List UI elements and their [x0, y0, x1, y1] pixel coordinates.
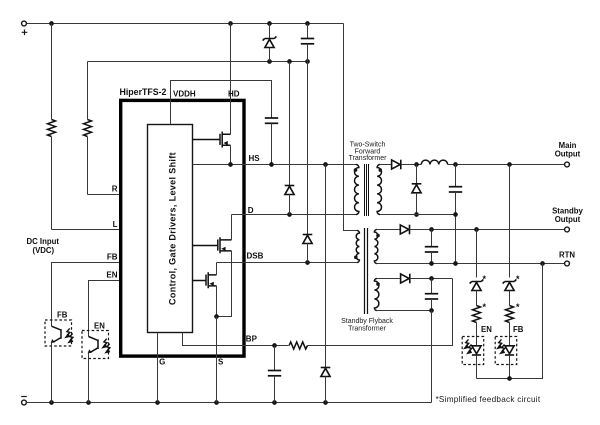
svg-text:Control, Gate Drivers, Level S: Control, Gate Drivers, Level Shift	[168, 152, 178, 305]
wire: bottom 0V rail	[27, 402, 432, 404]
wire: top +DC rail	[27, 23, 344, 25]
optocoupler U3 LED EN	[462, 337, 484, 365]
wire: main output line	[448, 164, 565, 166]
label DC Input (VDC)	[27, 237, 60, 255]
capacitor C2 (VDDH)	[265, 118, 278, 123]
wire: bias return to 0V rail	[431, 311, 433, 403]
node: bias cap dot	[429, 276, 434, 281]
wire: EN LED to return	[476, 355, 478, 379]
transformer T2 bias winding	[374, 279, 379, 311]
svg-text:Main: Main	[559, 141, 577, 150]
wire: FB pin lead	[52, 263, 122, 327]
wire: top rail right drop to flyback primary	[344, 24, 358, 231]
svg-text:*: *	[483, 302, 487, 312]
transformer T2 standby secondary winding	[374, 230, 377, 264]
wire: D line to forward primary bottom	[232, 214, 357, 216]
wire: S pin to 0V rail	[216, 317, 218, 403]
svg-text:FB: FB	[107, 253, 118, 262]
wire: HS line to forward primary	[193, 164, 357, 166]
svg-text:(VDC): (VDC)	[33, 246, 55, 255]
wire: FB LED to return	[509, 355, 511, 379]
svg-text:D: D	[248, 206, 254, 215]
wire: standby secondary top	[377, 229, 400, 231]
wire: FB opto emitter to 0V	[51, 342, 53, 402]
wire: FB resistor to LED	[509, 323, 511, 346]
svg-text:Standby: Standby	[552, 207, 583, 216]
diode D5 forward freewheel	[412, 165, 422, 215]
node: standby line dots	[429, 227, 479, 232]
wire: EN sense branch from standby output	[476, 230, 478, 278]
wire: EN pin lead	[89, 281, 122, 337]
resistor R1 (line sense, to L pin)	[48, 24, 56, 230]
node: RTN dots	[429, 261, 545, 266]
wire: DSB line to flyback primary bottom	[217, 262, 358, 264]
svg-text:Standby Flyback: Standby Flyback	[341, 318, 393, 325]
svg-text:BP: BP	[246, 335, 258, 344]
svg-text:FB: FB	[57, 311, 68, 320]
node: D clamp dot	[287, 212, 292, 217]
wire: EN zener to resistor	[476, 291, 478, 306]
wire: HD pin from +rail	[230, 24, 232, 135]
svg-text:HS: HS	[249, 154, 261, 163]
node: T2 standby secondary phase dot	[376, 234, 380, 238]
wire: bias winding top	[377, 278, 400, 280]
inductor L1 output choke	[421, 160, 447, 164]
wire: Q1 source to HS	[230, 145, 232, 164]
terminal: Standby Output	[565, 227, 570, 232]
DC input + terminal	[22, 21, 28, 35]
wire: VDDH trace to high-side supply cap	[171, 81, 272, 125]
node: HS dots	[228, 162, 328, 167]
wire: second rail (clamp net)	[88, 61, 308, 63]
svg-text:R: R	[112, 185, 118, 194]
zener VR1 (input clamp)	[263, 24, 277, 62]
wire: BP trace from inner block	[183, 333, 289, 346]
transformer T1 forward primary winding	[354, 165, 358, 215]
wire: Q3 source to S node	[216, 286, 218, 317]
node: bottom rail junction dots	[49, 400, 328, 405]
svg-text:Transformer: Transformer	[349, 155, 388, 162]
resistor R2 (reset, to R pin)	[84, 62, 92, 195]
svg-text:EN: EN	[94, 322, 105, 331]
node: freewheel top dot	[414, 162, 419, 167]
transformer T1 secondary winding	[377, 165, 381, 215]
node: C4 return dot	[453, 212, 458, 217]
wire: FB sense branch from main output	[509, 165, 511, 278]
svg-text:Output: Output	[555, 150, 581, 159]
diode D1 (D clamp to rail)	[285, 62, 295, 215]
transistor Q3 standby MOSFET	[193, 272, 217, 288]
wire: bias output to BP riser	[410, 278, 453, 280]
node: DSB clamp dot	[305, 260, 310, 265]
svg-text:RTN: RTN	[559, 251, 575, 260]
diode D4 forward output rectifier	[392, 160, 401, 170]
transformer T2 core	[365, 228, 368, 314]
svg-text:*Simplified feedback circuit: *Simplified feedback circuit	[436, 395, 541, 404]
wire: T1 secondary top to rectifier	[380, 164, 391, 166]
wire: EN resistor to LED	[476, 323, 478, 346]
svg-text:Output: Output	[555, 215, 581, 224]
svg-text:EN: EN	[106, 271, 117, 280]
diode D2 (DSB clamp to rail)	[303, 62, 313, 263]
wire: L pin lead	[52, 229, 122, 231]
node: feedback return dot	[507, 376, 512, 381]
svg-text:*: *	[483, 274, 487, 284]
svg-text:HD: HD	[228, 89, 240, 98]
svg-text:*: *	[516, 274, 520, 284]
capacitor C5 standby output	[425, 230, 438, 264]
wire: Q2 drain to D line	[231, 215, 233, 240]
wire: R pin lead	[88, 194, 122, 196]
node: T2 primary phase dot	[354, 255, 358, 259]
terminal: Main Output	[565, 162, 570, 167]
svg-text:*: *	[516, 302, 520, 312]
svg-text:HiperTFS-2: HiperTFS-2	[120, 87, 167, 97]
diode D7 bias rectifier	[401, 274, 410, 284]
svg-text:DSB: DSB	[247, 252, 264, 261]
wire: RTN line	[377, 263, 565, 265]
node: top rail junction dots	[49, 21, 310, 26]
node: BP cap dot	[272, 343, 277, 348]
svg-text:EN: EN	[481, 325, 492, 334]
wire: VDDH cap to HS	[271, 123, 273, 164]
label Two-Switch Forward Transformer	[349, 142, 388, 163]
svg-text:S: S	[218, 358, 224, 367]
wire: standby output line	[410, 229, 565, 231]
wire: feedback return to RTN	[477, 264, 543, 379]
svg-text:DC Input: DC Input	[27, 237, 60, 246]
transformer T2 flyback primary winding	[356, 231, 359, 263]
wire: EN opto emitter to 0V	[88, 352, 90, 402]
optocoupler U3 phototransistor EN	[82, 331, 110, 359]
svg-text:L: L	[113, 220, 118, 229]
node: T1 primary phase dot	[354, 168, 358, 172]
label Standby Output	[552, 207, 583, 225]
svg-text:VDDH: VDDH	[173, 89, 196, 98]
svg-text:Transformer: Transformer	[348, 326, 387, 333]
terminal: RTN	[565, 261, 570, 266]
diode D6 standby rectifier	[400, 225, 409, 235]
node: bias return dot	[429, 308, 434, 313]
transformer T1 core	[365, 164, 369, 216]
wire: bias winding bottom return	[377, 310, 432, 312]
DC input - terminal	[21, 397, 27, 405]
wire: FB zener to resistor	[509, 291, 511, 306]
svg-text:G: G	[159, 358, 165, 367]
capacitor C3 (BP)	[268, 346, 281, 403]
resistor R4 EN	[473, 306, 481, 323]
node: S node dot	[214, 314, 219, 319]
wire: G pin to 0V rail	[157, 333, 159, 403]
svg-text:FB: FB	[513, 325, 524, 334]
diode D3 (HS freewheel to 0V)	[321, 165, 331, 403]
optocoupler U2 phototransistor FB	[45, 320, 73, 346]
transistor Q2 forward low-side MOSFET	[193, 237, 232, 253]
transistor Q1 high-side MOSFET	[193, 132, 231, 148]
node: main line dots	[453, 162, 512, 167]
IC U1 HiperTFS-2 outline	[121, 100, 244, 356]
capacitor C6 bias	[425, 279, 438, 311]
wire: T1 secondary bottom return	[380, 214, 455, 216]
label Standby Flyback Transformer	[341, 318, 393, 333]
resistor R3 (BP series)	[289, 342, 307, 349]
wire: Q2 source down to S node	[217, 251, 232, 317]
node: T2 bias winding phase dot	[376, 282, 380, 286]
capacitor C4 main output	[449, 165, 462, 264]
node: T1 secondary phase dot	[379, 168, 383, 172]
wire: BP line right of resistor	[308, 279, 453, 346]
zener VR2 EN sense	[470, 279, 484, 290]
node: second rail dots	[267, 59, 310, 64]
capacitor C1 (clamp)	[301, 24, 314, 62]
IC U1 inner block Control, Gate Drivers, Level Shift	[148, 125, 193, 333]
resistor R5 FB	[506, 306, 514, 323]
wire: rectifier to inductor	[401, 164, 421, 166]
wire: Q3 drain to DSB line	[216, 263, 218, 275]
zener VR3 FB sense	[503, 279, 517, 290]
node: freewheel bottom dot	[414, 212, 419, 217]
label Main Output	[555, 141, 581, 159]
optocoupler U2 LED FB	[495, 337, 517, 365]
